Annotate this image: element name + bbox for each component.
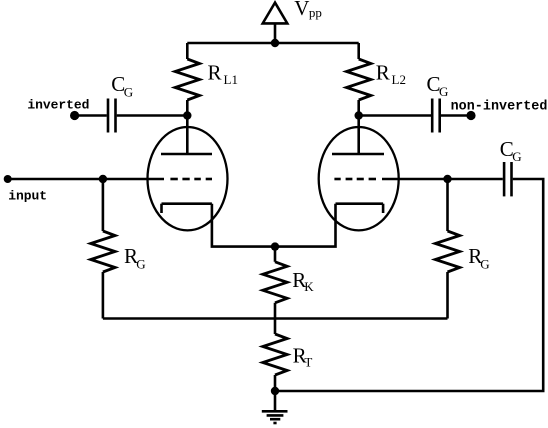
svg-text:G: G — [124, 84, 133, 99]
wire cathode V2 to tail — [275, 204, 336, 247]
resistor RT — [263, 334, 287, 391]
wire grid2 rail — [382, 178, 503, 181]
label RL2 — [376, 61, 406, 87]
wire non-inverted output right — [441, 114, 471, 117]
svg-text:pp: pp — [309, 5, 322, 20]
wire cathode V1 to tail — [212, 204, 275, 247]
text input — [8, 189, 47, 204]
label RG right — [468, 244, 489, 272]
triode V1 envelope — [148, 127, 228, 230]
node right plate junction dot — [355, 111, 363, 119]
resistor RG right — [435, 179, 459, 319]
svg-text:G: G — [136, 256, 145, 271]
node left plate junction dot — [183, 111, 191, 119]
label CG inverted output — [111, 72, 133, 99]
triode V1 plate — [161, 116, 212, 155]
triode V1 cathode — [162, 204, 212, 213]
node cathode junction dot — [271, 242, 279, 250]
svg-text:L1: L1 — [224, 72, 238, 87]
wire non-inverted output left — [359, 114, 431, 117]
node tail junction dot — [271, 387, 279, 395]
wire grid2 bypass to tail — [275, 179, 543, 391]
label RT — [293, 343, 313, 369]
svg-text:G: G — [439, 84, 448, 99]
label RG left — [124, 244, 146, 272]
wire grid return rail — [103, 317, 448, 320]
capacitor CG grid bypass — [504, 162, 511, 196]
node grid2 junction dot — [443, 175, 451, 183]
svg-text:G: G — [512, 149, 521, 164]
node input terminal dot — [4, 175, 12, 183]
node inverted terminal dot — [70, 111, 79, 120]
svg-text:R: R — [208, 61, 222, 85]
label CG grid bypass — [500, 137, 522, 164]
label CG non-inverted output — [427, 72, 449, 99]
wire inverted output right — [117, 114, 188, 117]
wire top supply rail — [187, 42, 358, 45]
svg-text:L2: L2 — [392, 72, 406, 87]
resistor RK — [263, 247, 287, 334]
resistor RL2 — [347, 43, 371, 116]
text inverted — [27, 97, 89, 112]
node Vpp junction dot — [271, 39, 279, 47]
ground — [262, 391, 288, 423]
triode V2 cathode — [336, 204, 384, 213]
wire input rail — [8, 178, 164, 181]
resistor RL1 — [175, 43, 199, 116]
triode V1 grid dashes — [170, 178, 212, 181]
svg-text:inverted: inverted — [27, 97, 89, 112]
svg-text:G: G — [480, 256, 489, 271]
capacitor CG non-inverted output — [432, 99, 440, 133]
triode V2 envelope — [319, 127, 399, 230]
capacitor CG inverted output — [108, 99, 116, 133]
triode V2 grid dashes — [334, 178, 376, 181]
power supply Vpp triangle symbol — [263, 3, 288, 43]
svg-text:T: T — [304, 355, 312, 370]
node non-inverted terminal dot — [466, 111, 475, 120]
resistor RG left — [91, 179, 115, 319]
label Vpp — [294, 0, 322, 20]
svg-text:K: K — [304, 279, 314, 294]
wire inverted output left — [75, 114, 107, 117]
svg-text:R: R — [376, 61, 390, 85]
svg-text:non-inverted: non-inverted — [451, 99, 548, 114]
text non-inverted — [451, 99, 548, 114]
svg-text:V: V — [294, 0, 309, 20]
triode V2 plate — [332, 116, 384, 155]
label RK — [292, 268, 314, 294]
label RL1 — [208, 61, 238, 87]
node input junction dot — [99, 175, 107, 183]
svg-text:input: input — [8, 189, 47, 204]
